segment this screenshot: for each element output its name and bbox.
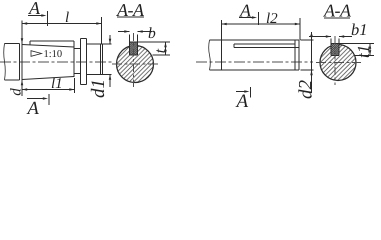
collar right edge: [86, 39, 88, 85]
dimension b arrow left: [124, 30, 129, 33]
dimension d2 arrow bottom: [310, 70, 313, 75]
right section arrow line top: [239, 17, 255, 19]
neck top edge: [74, 48, 80, 50]
keyway slot bottom line: [234, 47, 299, 49]
dimension t1 arrow bottom: [369, 50, 372, 55]
svg-text:l1: l1: [51, 76, 63, 92]
dimension b line left part: [118, 31, 130, 33]
svg-text:t: t: [152, 48, 169, 53]
shaft shoulder: [19, 44, 21, 81]
right shaft chamfer line: [294, 40, 296, 70]
dimension d1 arrow top: [109, 39, 112, 44]
dimension d arrow top: [21, 38, 24, 43]
right section arrow line bottom: [236, 91, 248, 93]
right keyway left wall: [330, 39, 332, 56]
l1 right extension line: [74, 78, 76, 93]
d2 top extension line: [301, 39, 314, 41]
cone top edge: [22, 45, 74, 48]
journal top edge with d1 extension: [87, 43, 112, 45]
section arrow head top: [41, 14, 46, 17]
cone bottom edge: [22, 77, 74, 80]
dimension l1 line: [22, 89, 75, 91]
dimension d arrow bottom: [21, 80, 24, 85]
dimension b1 arrow left: [326, 35, 331, 38]
key block in section left: [130, 42, 138, 55]
right section cut stroke top: [258, 12, 260, 25]
shaft body top edge: [5, 43, 20, 45]
section cut stroke top: [47, 11, 49, 26]
collar bottom edge: [80, 84, 86, 86]
dimension t1 line: [369, 44, 371, 56]
collar top edge: [80, 38, 86, 40]
key top line with t extension: [130, 41, 171, 43]
dimension b arrow right: [138, 30, 143, 33]
chamfer line: [100, 44, 102, 75]
right keyway slot bottom: [331, 55, 339, 57]
right keyway right wall: [338, 39, 340, 56]
centerline right main view: [196, 61, 313, 63]
dimension l1 arrow right: [69, 88, 74, 91]
section arrow head bottom: [43, 97, 48, 100]
dimension l line: [22, 23, 102, 25]
section right vertical centerline: [334, 36, 336, 85]
dimension d2 arrow top: [310, 35, 313, 40]
svg-text:t1: t1: [354, 45, 373, 58]
svg-text:d: d: [8, 88, 24, 96]
right shaft break line (wavy left edge): [209, 40, 211, 70]
section circle left (hatched): [117, 46, 154, 83]
svg-text:b1: b1: [351, 20, 368, 39]
cone end edge: [73, 41, 75, 77]
svg-text:A: A: [26, 99, 40, 119]
dimension l1 arrow left: [22, 88, 27, 91]
section left vertical centerline: [133, 33, 135, 87]
section cut stroke bottom: [48, 94, 50, 105]
dimension l2 arrow right: [295, 23, 300, 26]
right shaft bottom edge: [210, 69, 300, 71]
taper symbol 1:10: [31, 51, 42, 57]
svg-text:1:10: 1:10: [44, 49, 63, 60]
right shaft shoulder / l2 extension: [221, 20, 223, 70]
svg-text:b: b: [148, 25, 156, 42]
dimension b1 arrow right: [339, 35, 344, 38]
journal bottom edge with d1 extension: [87, 74, 112, 76]
t1 bottom extension line: [355, 55, 374, 57]
dimension t arrow top: [164, 42, 167, 47]
section A-A title underline left: [117, 16, 144, 18]
l2 right extension line: [299, 18, 301, 40]
keyway right wall: [137, 35, 139, 56]
svg-text:d1: d1: [88, 79, 109, 98]
right key top line with t1 extension: [331, 43, 374, 45]
section arrow line top: [28, 15, 45, 17]
collar left edge: [79, 39, 81, 85]
dimension d1 line top segment: [109, 35, 111, 44]
dimension t1 arrow top: [369, 44, 372, 49]
centerline left main view: [0, 61, 113, 63]
keyway left wall: [129, 35, 131, 56]
keyway slot top line: [234, 43, 295, 45]
dimension l2 arrow left: [222, 23, 227, 26]
section right horizontal centerline: [316, 62, 361, 64]
dimension t arrow bottom: [164, 50, 167, 55]
keyway slot left end: [233, 44, 235, 48]
svg-text:A: A: [235, 91, 249, 112]
dimension d1 arrow bottom: [109, 75, 112, 80]
keyway slot bottom: [130, 54, 138, 56]
key left end: [29, 41, 31, 45]
right section arrow head bottom: [244, 90, 249, 93]
key top edge: [30, 40, 74, 42]
svg-text:d2: d2: [296, 80, 317, 100]
neck bottom edge: [74, 73, 80, 75]
section circle right (hatched): [320, 45, 356, 81]
dimension d2 line: [311, 32, 313, 93]
shaft break line (wavy left edge): [4, 44, 6, 81]
dimension l2 line: [222, 23, 301, 25]
section arrow line bottom: [27, 98, 46, 100]
key block in section right: [331, 44, 339, 56]
dimension d line (vertical through shaft): [21, 21, 23, 97]
dimension b1 line right part: [339, 36, 352, 38]
dimension b line right part: [138, 31, 153, 33]
dimension l arrow right: [96, 22, 101, 25]
dimension d1 line bottom segment: [109, 75, 111, 88]
t bottom extension line: [153, 54, 171, 56]
svg-text:l2: l2: [266, 11, 278, 27]
section A-A title underline right: [324, 17, 350, 19]
right shaft top edge: [210, 39, 300, 41]
dimension l arrow left: [22, 22, 27, 25]
l right extension line: [101, 17, 103, 44]
right section cut stroke bottom: [250, 87, 252, 98]
svg-text:A-A: A-A: [323, 0, 352, 20]
dimension b1 line left part: [309, 36, 331, 38]
shaft body bottom edge: [5, 79, 20, 81]
section left horizontal centerline: [112, 63, 159, 65]
dimension t line: [165, 42, 167, 55]
d2 bottom extension line: [301, 69, 314, 71]
svg-text:l: l: [65, 10, 69, 26]
right section arrow head top: [252, 16, 257, 19]
shaft end edge: [102, 44, 104, 75]
right shaft end edge: [298, 40, 300, 70]
